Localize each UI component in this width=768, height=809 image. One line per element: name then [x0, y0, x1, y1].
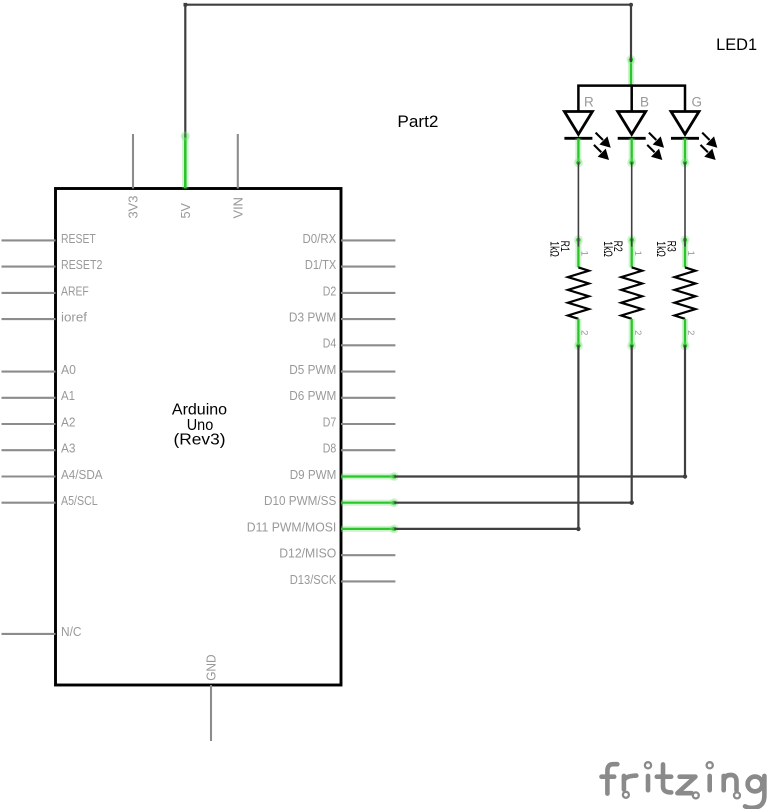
svg-text:D6 PWM: D6 PWM	[289, 389, 336, 403]
wire R to D10 PWM	[394, 345, 634, 505]
wire R to D9 PWM	[394, 345, 687, 478]
pin D11 PWM/MOSI (connected, green)	[247, 520, 399, 534]
label Arduino Uno (Rev3)	[172, 401, 227, 448]
svg-text:GND: GND	[205, 655, 219, 681]
pin D5 PWM	[289, 363, 395, 377]
svg-text:D10 PWM/SS: D10 PWM/SS	[264, 494, 336, 508]
resistor R1 1kΩ	[548, 235, 590, 350]
svg-text:N/C: N/C	[61, 625, 82, 639]
fritzing logo	[602, 764, 765, 808]
pin AREF	[2, 284, 90, 298]
svg-text:A2: A2	[61, 415, 76, 429]
svg-text:G: G	[692, 94, 703, 109]
LED element R	[564, 94, 610, 167]
LED element G	[671, 94, 717, 167]
svg-text:A4/SDA: A4/SDA	[61, 468, 103, 482]
svg-text:D8: D8	[323, 442, 337, 456]
pin 5V (connected, green)	[179, 134, 193, 219]
svg-text:D7: D7	[323, 415, 337, 429]
resistor R3 1kΩ	[654, 235, 696, 350]
LED element B	[618, 94, 664, 167]
svg-text:D11 PWM/MOSI: D11 PWM/MOSI	[247, 520, 337, 534]
svg-text:D5 PWM: D5 PWM	[289, 363, 336, 377]
svg-text:1: 1	[632, 251, 643, 256]
wire 5V to LED common	[181, 3, 633, 141]
svg-text:2: 2	[579, 330, 590, 335]
pin RESET2	[2, 258, 103, 272]
pin RESET	[2, 232, 97, 246]
svg-text:2: 2	[685, 330, 696, 335]
svg-text:1: 1	[685, 251, 696, 256]
pin D9 PWM (connected, green)	[290, 468, 399, 482]
svg-text:D12/MISO: D12/MISO	[279, 547, 336, 561]
svg-text:2: 2	[632, 330, 643, 335]
pin D1/TX	[305, 258, 396, 272]
svg-text:D3 PWM: D3 PWM	[289, 311, 336, 325]
svg-text:1kΩ: 1kΩ	[654, 241, 666, 257]
svg-text:A0: A0	[61, 363, 76, 377]
wire R to D11 PWM	[394, 345, 580, 531]
pin A1	[2, 389, 76, 403]
svg-text:D0/RX: D0/RX	[303, 232, 337, 246]
Arduino Uno body U1	[56, 189, 342, 686]
pin D7	[323, 415, 396, 429]
pin D3 PWM	[289, 311, 396, 325]
pin D2	[323, 284, 396, 298]
pin ioref	[2, 311, 88, 325]
svg-text:5V: 5V	[179, 202, 193, 218]
pin GND	[205, 655, 219, 742]
svg-text:1kΩ: 1kΩ	[548, 241, 560, 257]
pin D8	[323, 442, 396, 456]
svg-text:Arduino: Arduino	[172, 401, 227, 418]
LED1 internal bus	[578, 86, 685, 112]
svg-text:AREF: AREF	[61, 284, 89, 298]
pin A3	[2, 442, 76, 456]
svg-text:VIN: VIN	[231, 197, 245, 219]
pin D4	[323, 337, 396, 351]
pin A4/SDA	[2, 468, 104, 482]
svg-text:1kΩ: 1kΩ	[601, 241, 613, 257]
pin D12/MISO	[279, 547, 395, 561]
pin D10 PWM/SS (connected, green)	[264, 494, 399, 508]
svg-text:3V3: 3V3	[127, 195, 141, 218]
LED1 common anode pin (green)	[627, 55, 636, 86]
wire LED3 cathode to R3	[684, 162, 686, 246]
pin N/C	[2, 625, 82, 639]
pin VIN	[231, 134, 245, 219]
pin D13/SCK	[290, 573, 396, 587]
svg-text:1: 1	[579, 251, 590, 256]
svg-text:A1: A1	[61, 389, 75, 403]
pin D6 PWM	[289, 389, 395, 403]
svg-text:A3: A3	[61, 442, 76, 456]
svg-text:ioref: ioref	[61, 311, 88, 325]
pin D0/RX	[303, 232, 396, 246]
svg-text:D13/SCK: D13/SCK	[290, 573, 337, 587]
wire LED2 cathode to R2	[631, 162, 633, 246]
pin A0	[2, 363, 76, 377]
pin A2	[2, 415, 76, 429]
svg-text:D4: D4	[323, 337, 337, 351]
svg-text:R: R	[584, 94, 594, 109]
wire LED1 cathode to R1	[577, 162, 579, 246]
svg-text:(Rev3): (Rev3)	[174, 432, 226, 449]
svg-text:B: B	[640, 94, 649, 109]
svg-text:Part2: Part2	[397, 112, 438, 131]
pin 3V3	[127, 134, 141, 219]
svg-text:RESET2: RESET2	[61, 258, 102, 272]
svg-text:RESET: RESET	[61, 232, 96, 246]
svg-text:D2: D2	[323, 284, 337, 298]
svg-text:LED1: LED1	[716, 36, 757, 54]
resistor R2 1kΩ	[601, 235, 643, 350]
svg-text:D9 PWM: D9 PWM	[290, 468, 337, 482]
svg-text:A5/SCL: A5/SCL	[61, 494, 98, 508]
pin A5/SCL	[2, 494, 98, 508]
svg-text:D1/TX: D1/TX	[305, 258, 337, 272]
